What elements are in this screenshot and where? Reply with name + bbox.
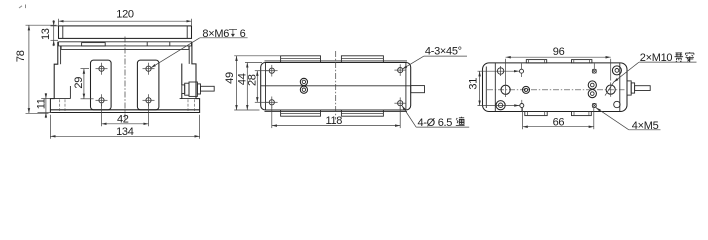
dim 78	[15, 25, 56, 113]
dim 49	[224, 56, 282, 110]
bottom tab 2	[341, 110, 383, 116]
double circle mid lower	[588, 90, 596, 98]
svg-text:4-Ø 6.5: 4-Ø 6.5	[418, 117, 453, 129]
left cap lines	[485, 67, 487, 109]
M5 hole bottom-right	[592, 103, 596, 107]
centerline	[487, 89, 625, 91]
top tab 1	[526, 60, 546, 63]
dim 13	[40, 20, 58, 46]
centerline	[124, 37, 126, 122]
label 4-3x45	[402, 46, 467, 70]
label 8xM6 depth 6	[151, 28, 248, 68]
svg-text:96: 96	[553, 46, 565, 58]
hole M6 top-right	[143, 63, 155, 75]
svg-text:118: 118	[325, 115, 342, 127]
M5 hole top-right	[592, 64, 596, 74]
hole bottom-right	[614, 101, 620, 107]
dim 28	[246, 71, 268, 103]
hole top-left	[497, 66, 503, 76]
double circle lower	[300, 86, 307, 93]
double circle upper	[300, 78, 307, 85]
svg-text:66: 66	[553, 116, 565, 128]
spacer plate stack	[59, 42, 192, 50]
mid parting line	[261, 85, 411, 87]
right leg plate	[137, 60, 159, 110]
bottom tab 2	[572, 112, 592, 116]
svg-text:120: 120	[116, 9, 134, 21]
svg-text:4×M5: 4×M5	[632, 120, 659, 132]
double circle top-right	[612, 66, 621, 75]
M10 hole right	[605, 82, 615, 97]
dim 134	[50, 115, 199, 139]
cable gland	[627, 81, 650, 95]
bottom tab 1	[281, 110, 321, 116]
dim 31	[467, 71, 519, 105]
top plate	[59, 26, 192, 39]
hole top-left	[266, 65, 278, 77]
stray mark top-left	[19, 5, 26, 9]
top tab 2	[341, 56, 383, 63]
body outline	[483, 63, 628, 112]
svg-text:6: 6	[240, 28, 246, 40]
centerline	[335, 51, 337, 120]
rib edge	[69, 86, 71, 99]
counterbore bottom-left	[496, 101, 505, 110]
svg-text:42: 42	[117, 113, 129, 125]
body outline	[261, 63, 411, 111]
bottom tab 1	[525, 112, 547, 116]
base top edge	[50, 109, 199, 111]
svg-text:49: 49	[224, 72, 236, 84]
dim 118	[272, 107, 400, 129]
top tab 2	[572, 60, 592, 63]
svg-text:78: 78	[15, 50, 27, 62]
bottom surface line	[265, 111, 408, 113]
left leg plate	[91, 60, 112, 110]
dim 29	[73, 69, 94, 99]
svg-text:31: 31	[467, 78, 479, 90]
double circle mid upper	[588, 81, 596, 89]
label 2xM10 through	[614, 52, 697, 82]
top surface line	[265, 60, 408, 62]
dim 11	[35, 93, 52, 118]
right cap line	[619, 63, 621, 111]
hole bottom-right	[394, 97, 406, 109]
bracket body outline	[50, 42, 199, 113]
svg-text:4-3×45°: 4-3×45°	[425, 46, 462, 58]
dim 66	[523, 108, 594, 129]
dim 96	[506, 46, 611, 83]
inner edge lines upper	[60, 46, 62, 64]
dim 120	[59, 9, 192, 26]
svg-text:13: 13	[40, 28, 52, 40]
end cap lines	[265, 63, 267, 110]
label 4-dia6.5 through	[402, 106, 469, 130]
cable gland side	[182, 64, 214, 99]
hidden holes in base	[59, 99, 61, 112]
svg-text:8×M6: 8×M6	[202, 28, 229, 40]
svg-text:28: 28	[246, 74, 258, 86]
hole bottom-left	[266, 97, 278, 109]
foot top edges	[50, 98, 70, 100]
double circle mid-left	[523, 86, 530, 93]
cable stub	[411, 86, 425, 93]
M5 hole top-left	[520, 64, 524, 78]
hole top-right	[394, 64, 406, 76]
M10 hole left	[501, 83, 510, 97]
dim 42	[102, 104, 149, 126]
svg-text:2×M10: 2×M10	[640, 52, 673, 64]
hole M6 bottom-left	[96, 94, 108, 106]
top tab 1	[281, 56, 321, 63]
dim 44	[236, 63, 262, 111]
svg-text:11: 11	[35, 98, 47, 109]
svg-text:134: 134	[116, 126, 134, 138]
hole M6 top-left	[96, 63, 108, 75]
hole M6 bottom-right	[143, 94, 155, 106]
M5 hole bottom-left	[520, 100, 524, 111]
svg-text:29: 29	[73, 77, 85, 89]
label 4xM5	[596, 108, 661, 132]
